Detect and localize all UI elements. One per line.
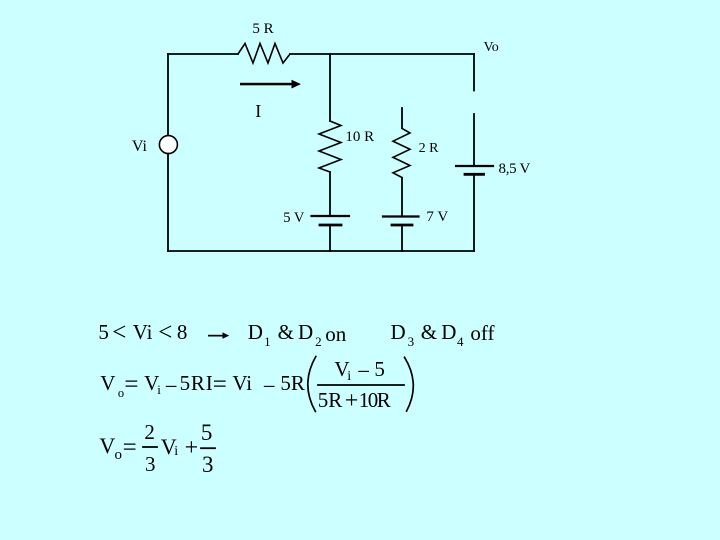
eq2 5RI (180, 373, 214, 394)
eq3 sub o (115, 448, 123, 463)
value label 5R (252, 22, 273, 37)
wire bottom (168, 250, 474, 252)
wire left upper (167, 54, 169, 136)
value label 8,5V (499, 162, 531, 177)
eq3 V2 (161, 436, 177, 458)
eq2 V (100, 373, 115, 394)
eq1 amp 1 (278, 322, 294, 343)
eq3 denominator 3 (145, 454, 156, 475)
node label Vi (132, 139, 147, 155)
eq1 sub 3 (408, 335, 415, 348)
eq2 denominator 5R (318, 390, 343, 411)
eq2 numerator sub i (347, 370, 351, 384)
eq1 sub 4 (457, 335, 464, 348)
eq1 lt 2 (158, 320, 172, 345)
wire right lower (473, 176, 475, 252)
eq2 numerator 5 (374, 359, 385, 380)
battery B1 (5V) (312, 216, 350, 225)
eq2 sub o (118, 387, 124, 400)
eq1 Vi (133, 322, 153, 343)
wire right middle (473, 114, 475, 165)
value label 7V (426, 210, 448, 225)
value label 5V (283, 211, 304, 226)
current label I (255, 102, 261, 120)
eq2 big right parenthesis (405, 357, 414, 411)
eq2 equals 2 (213, 372, 227, 397)
resistor R3 (2R) (393, 129, 410, 178)
eq1 D3 (391, 322, 406, 343)
wire 10R to battery (329, 172, 331, 215)
eq3 denominator 3b (202, 453, 214, 476)
source V1 (Vi) circle (159, 136, 177, 154)
current arrow I (240, 80, 301, 89)
value label 2R (419, 142, 439, 156)
eq1 amp 2 (421, 322, 437, 343)
resistor R1 (5R) (238, 44, 290, 64)
eq1 D4 (441, 322, 456, 343)
wire stub 2R top (401, 108, 403, 128)
eq3 fraction bar 2/3 (143, 446, 157, 448)
eq1 on (325, 324, 346, 345)
eq2 equals 1 (124, 372, 138, 397)
eq2 numerator V (334, 359, 349, 380)
eq1 lt 1 (112, 320, 126, 345)
wire right upper (473, 54, 475, 91)
eq2 minus 2 (263, 375, 276, 398)
wire 2R to battery (401, 178, 403, 215)
eq1 sub 1 (264, 335, 271, 348)
wire branch 10R top (329, 54, 331, 121)
wire top-right (290, 53, 474, 55)
resistor R2 (10R) (319, 121, 341, 172)
eq3 fraction bar 5/3 (201, 447, 215, 449)
eq2 minus 1 (165, 375, 178, 398)
eq1 sub 2 (315, 335, 322, 348)
eq1 D1 (248, 322, 263, 343)
battery B3 (8,5V) (456, 166, 493, 174)
eq2 big left parenthesis (308, 357, 316, 412)
eq1 5 (98, 322, 109, 343)
eq1 D2 (298, 322, 313, 343)
eq2 Vi (232, 373, 252, 394)
wire top-left (168, 53, 238, 55)
battery B2 (7V) (383, 217, 419, 226)
eq2 denominator plus (345, 389, 359, 413)
wire 5V battery to bottom (329, 226, 331, 251)
eq2 sub i (157, 383, 161, 396)
eq1 implies arrow (208, 332, 229, 338)
eq3 numerator 2 (144, 422, 155, 443)
eq3 sub i (174, 445, 178, 459)
eq2 numerator minus (357, 360, 370, 383)
eq2 V2 (144, 373, 159, 394)
eq3 equals (123, 435, 137, 460)
eq1 off (470, 323, 494, 344)
wire left lower (167, 154, 169, 251)
eq1 8 (177, 322, 188, 343)
eq3 plus (185, 436, 199, 460)
value label 10R (345, 130, 374, 145)
eq3 numerator 5 (201, 421, 213, 444)
eq2 fraction bar (318, 384, 404, 386)
eq2 denominator 10R (359, 390, 390, 411)
wire 7V battery to bottom (401, 226, 403, 251)
node label Vo (484, 41, 499, 55)
eq3 V (99, 435, 115, 457)
eq2 5R (280, 373, 305, 394)
